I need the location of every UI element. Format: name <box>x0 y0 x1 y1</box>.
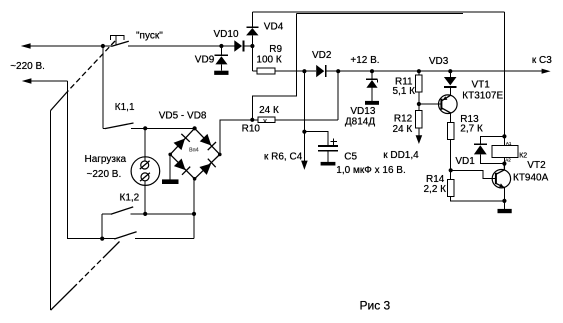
mechanical link vertical <box>50 111 52 311</box>
transistor VT1 PNP <box>439 95 458 114</box>
diode VD9 <box>215 46 229 71</box>
wire button to VD10 <box>128 45 234 47</box>
svg-text:Д814Д: Д814Д <box>345 116 375 127</box>
node C5 tap <box>302 130 306 134</box>
diode VD5 top-left <box>173 134 190 151</box>
wire K1,2 left riser <box>101 214 103 239</box>
zener VD13 <box>366 71 378 101</box>
wire +12V row <box>326 69 551 74</box>
svg-text:К1,1: К1,1 <box>115 102 135 113</box>
diode VD10 <box>234 40 252 51</box>
wire vertical to K1,1 <box>102 46 104 128</box>
node relay top VD1 <box>502 134 506 138</box>
contact K1,2 lower <box>114 232 194 239</box>
svg-text:~220 В.: ~220 В. <box>87 169 122 180</box>
svg-text:КТ3107Е: КТ3107Е <box>462 91 503 102</box>
svg-text:К2: К2 <box>519 152 527 159</box>
wire base VT2 step <box>451 170 496 178</box>
transistor VT2 NPN <box>492 164 510 201</box>
svg-text:Нагрузка: Нагрузка <box>85 154 127 165</box>
svg-text:Вп4: Вп4 <box>189 147 199 153</box>
node mains joins K1,2 <box>100 237 104 241</box>
resistor R10 <box>252 117 338 125</box>
ground VT2 emitter <box>498 209 512 213</box>
svg-text:2,7 К: 2,7 К <box>460 124 483 135</box>
wire bridge left vertex to ground <box>169 154 171 179</box>
diode VD7 bottom-left <box>174 158 191 175</box>
svg-text:КТ940А: КТ940А <box>513 173 549 184</box>
arrow to R6 C4 <box>301 161 308 170</box>
svg-text:R12: R12 <box>394 114 413 125</box>
svg-text:к С3: к С3 <box>532 55 552 66</box>
contact K1,2 upper <box>102 207 194 214</box>
ground under bridge <box>162 179 179 184</box>
node R11 R12 base <box>417 102 421 106</box>
contact K1,1 blade <box>103 123 195 129</box>
wire lamp stem top <box>144 128 146 161</box>
bridge rectifier VD5-VD8 <box>168 126 221 180</box>
mechanical link dashed diagonal upper <box>51 41 115 111</box>
wire mains line 1 with left arrow <box>21 43 112 49</box>
svg-text:"пуск": "пуск" <box>136 31 163 42</box>
svg-text:100 К: 100 К <box>256 55 281 66</box>
node R10 riser top <box>336 69 340 73</box>
svg-text:А1: А1 <box>506 141 512 146</box>
svg-text:VD13: VD13 <box>350 106 375 117</box>
node relay bottom collector <box>502 162 506 166</box>
diode VD3 <box>444 71 457 95</box>
push button SB "пуск" <box>110 35 129 46</box>
node bridge riser on K1,2 row <box>192 212 196 216</box>
node VD10 VD4 R9 <box>250 44 254 48</box>
svg-text:~220 В.: ~220 В. <box>10 61 45 72</box>
diode VD2 <box>316 65 326 77</box>
wire bridge right vertex up to R10 row <box>220 120 253 155</box>
svg-text:VT1: VT1 <box>472 80 491 91</box>
svg-text:Рис 3: Рис 3 <box>360 298 391 312</box>
lamp load socket <box>131 157 160 186</box>
resistor R9 <box>252 46 316 74</box>
diode VD4 <box>246 12 258 46</box>
svg-text:5,1 К: 5,1 К <box>393 86 416 97</box>
node VD13 top <box>370 69 374 73</box>
svg-text:А2: А2 <box>505 158 511 163</box>
node R11 top <box>417 69 421 73</box>
node lamp bottom <box>143 212 147 216</box>
capacitor C5 <box>304 132 338 162</box>
svg-text:VD4: VD4 <box>264 21 284 32</box>
ground under VD13 <box>365 101 379 105</box>
svg-text:C5: C5 <box>344 152 357 163</box>
svg-text:VD9: VD9 <box>195 54 215 65</box>
resistor R11 <box>416 71 422 104</box>
node VD9 tap <box>219 44 223 48</box>
resistor R12 <box>416 104 422 136</box>
arrow to DD1,4 <box>416 135 423 144</box>
svg-text:R10: R10 <box>242 124 261 135</box>
wire R10 right riser to +12 row <box>337 71 339 120</box>
ground under VD9 <box>214 71 228 75</box>
svg-text:VD5 - VD8: VD5 - VD8 <box>159 111 207 122</box>
ground under C5 <box>321 162 336 166</box>
resistor R14 <box>448 170 505 201</box>
wire right vertical rail to relay <box>503 12 505 136</box>
diode VD8 bottom-right <box>199 159 216 176</box>
svg-text:VT2: VT2 <box>527 160 546 171</box>
mechanical link diagonal lower <box>51 242 120 311</box>
wire base VT1 <box>419 103 442 105</box>
wire R10 feed from top rail <box>252 13 296 119</box>
node emitter R14 ground <box>502 199 506 203</box>
svg-text:К1,2: К1,2 <box>120 192 140 203</box>
svg-text:к DD1,4: к DD1,4 <box>383 150 419 161</box>
node R10 left <box>250 118 254 122</box>
node R13 R14 base VT2 <box>449 168 453 172</box>
diode VD6 top-right <box>199 134 216 151</box>
wire C5 branch vertical <box>303 71 305 161</box>
wire emitter to ground <box>503 201 505 209</box>
svg-text:1,0 мкФ х 16 В.: 1,0 мкФ х 16 В. <box>336 165 405 176</box>
svg-text:к R6, C4: к R6, C4 <box>264 151 303 162</box>
svg-text:24 К: 24 К <box>259 105 279 116</box>
relay K2 coil <box>492 136 518 163</box>
node VD3 top <box>448 69 452 73</box>
node lamp top <box>143 126 147 130</box>
node junction at button <box>101 44 105 48</box>
resistor R13 <box>448 113 454 170</box>
svg-text:VD2: VD2 <box>312 50 332 61</box>
svg-text:24 К: 24 К <box>393 124 413 135</box>
wire bridge bottom vertex down to K1,2 <box>193 179 195 239</box>
svg-text:VD3: VD3 <box>429 56 449 67</box>
wire lamp stem bottom <box>144 181 146 214</box>
svg-text:2,2 К: 2,2 К <box>424 184 447 195</box>
wire mains line 2 with left arrow <box>22 78 115 238</box>
diode VD1 <box>474 136 505 163</box>
svg-text:+12 В.: +12 В. <box>350 55 379 66</box>
wire top rail <box>252 12 504 14</box>
node C5 branch top <box>302 69 306 73</box>
svg-text:VD1: VD1 <box>455 156 475 167</box>
svg-text:VD10: VD10 <box>214 29 239 40</box>
